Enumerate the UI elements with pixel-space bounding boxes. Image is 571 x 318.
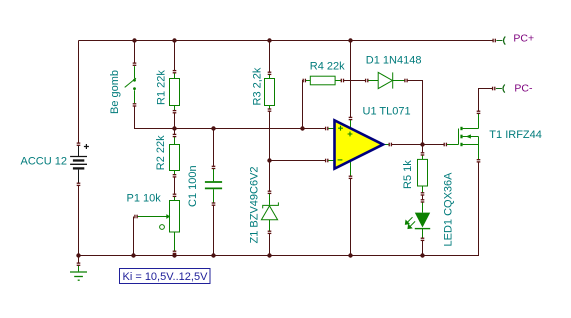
wire switch to noninverting row (135, 106, 326, 128)
node +input row / R4 branch (300, 126, 304, 130)
output voltage note box (120, 269, 211, 284)
wire LED1 bottom stub (422, 241, 424, 256)
svg-text:R4 22k: R4 22k (310, 61, 345, 73)
MOSFET T1 drain link (463, 128, 479, 130)
svg-text:Z1 BZV49C6V2: Z1 BZV49C6V2 (248, 166, 260, 243)
op-amp U1 input and output pin stubs (329, 129, 389, 161)
pin tick T1 drain (477, 111, 481, 115)
pin tick R2 bottom (173, 174, 177, 178)
pin tick T1 source (477, 159, 481, 163)
wire T1 drain to PC- (479, 89, 493, 111)
node +input row / C1 (211, 126, 215, 130)
wire R4 left branch (302, 81, 305, 129)
wire ground stub (78, 256, 80, 263)
wire R3 top stub (269, 41, 271, 72)
node bottom rail / LED1 (420, 253, 424, 257)
MOSFET T1 body arrow (466, 134, 471, 138)
node bottom rail / battery (76, 253, 80, 257)
switch Be gomb body (125, 66, 136, 103)
wire R1 bottom stub (174, 113, 176, 128)
svg-text:C1 100n: C1 100n (187, 165, 199, 207)
svg-text:Be gomb: Be gomb (109, 70, 121, 114)
wire battery bottom segment (78, 185, 80, 255)
switch contact lower (133, 87, 136, 90)
wire R5 top stub (422, 145, 424, 153)
pin tick Z1 top (268, 191, 272, 195)
pin tick R1 top (173, 70, 177, 74)
pin tick P1 bottom (173, 251, 177, 255)
resistor R4 (306, 76, 341, 85)
op-amp U1 noninverting input + mark (338, 126, 343, 131)
diode D1 anode pin (368, 80, 378, 82)
svg-text:R2 22k: R2 22k (155, 135, 167, 170)
wire P1 bottom stub (174, 254, 176, 256)
pin tick R4 left (303, 79, 307, 83)
resistor R5 (418, 155, 428, 193)
svg-text:Ki = 10,5V..12,5V: Ki = 10,5V..12,5V (123, 271, 209, 283)
pin tick T1 gate (444, 143, 448, 147)
svg-text:R1 22k: R1 22k (156, 70, 168, 105)
pin tick ground (77, 262, 81, 265)
wire Z1 bottom stub (269, 234, 271, 256)
pin tick D1 anode (365, 79, 368, 83)
pin tick PC- (492, 87, 495, 91)
wire R1 top stub (174, 41, 176, 71)
node bottom rail / U1 V- (348, 253, 352, 257)
MOSFET T1 drain pin (478, 113, 480, 128)
pin tick U1 V+ (349, 117, 353, 121)
op-amp U1 power pin stubs (350, 120, 352, 176)
zener diode Z1 bottom pin (269, 220, 271, 232)
pin tick PC+ (492, 39, 495, 43)
resistor R3 (265, 75, 275, 109)
wire P1 wiper net (133, 217, 135, 256)
MOSFET T1 source link (463, 144, 479, 146)
wire C1 top stub (213, 129, 215, 166)
wire R3 to Z1 link (269, 112, 271, 191)
resistor R1 (170, 73, 180, 110)
wire D1 to output node (408, 81, 423, 145)
node -input row / R3 Z1 (267, 158, 271, 162)
LED LED1 cathode pin (422, 229, 424, 239)
pin tick D1 cathode (404, 79, 408, 83)
pin tick switch top (133, 62, 137, 66)
LED LED1 anode pin (422, 202, 424, 212)
svg-text:D1 1N4148: D1 1N4148 (366, 55, 422, 67)
op-amp U1 V+ mark (348, 132, 353, 137)
node bottom rail / C1 (211, 253, 215, 257)
pin tick R3 top (268, 72, 272, 76)
pin tick C1 top (212, 166, 216, 170)
pin tick battery - (77, 183, 81, 187)
wire R5 to LED1 link (422, 195, 424, 199)
pin tick LED1 anode (421, 199, 425, 203)
wire U1 V+ stub (350, 41, 352, 118)
wire switch top stub (134, 41, 136, 63)
wire U1 V- stub (350, 179, 352, 256)
capacitor C1 (205, 169, 222, 203)
wire C1 bottom stub (213, 206, 215, 256)
pin tick switch bottom (133, 103, 137, 107)
pin tick C1 bottom (212, 202, 216, 206)
pin tick R2 top (173, 134, 177, 138)
node top rail / R3 (267, 38, 271, 42)
MOSFET T1 source pin (478, 137, 480, 160)
pin tick R4 right (341, 79, 345, 83)
potentiometer P1 wiper arrow (166, 214, 170, 219)
svg-text:U1 TL071: U1 TL071 (363, 105, 411, 117)
pin tick P1 wiper (134, 215, 138, 219)
MOSFET T1 body link (463, 136, 479, 138)
wire bottom ground rail (79, 162, 479, 256)
switch contact upper (133, 79, 136, 82)
pin tick Z1 bottom (268, 231, 272, 235)
pin tick U1 V- (349, 176, 353, 180)
pin tick R5 bottom (421, 192, 425, 196)
node top rail / switch (132, 38, 136, 42)
diode D1 triangle (378, 72, 392, 88)
pin tick U1 inverting input (325, 159, 328, 163)
LED LED1 triangle (415, 213, 430, 228)
pin tick battery + (77, 142, 81, 146)
zener diode Z1 body (263, 194, 279, 209)
potentiometer P1 body (138, 197, 180, 252)
node +input row / R1 R2 (172, 126, 176, 130)
diode D1 cathode pin (393, 80, 405, 82)
wire R4 to D1 link (344, 80, 366, 82)
node top rail / U1 V+ (348, 38, 352, 42)
node bottom rail / wiper (131, 253, 135, 257)
node bottom rail / P1 (172, 253, 176, 257)
node output node (420, 142, 424, 146)
battery B1 ACCU 12 (70, 144, 89, 183)
wire top power rail (79, 40, 494, 42)
pin tick LED1 cathode (421, 238, 425, 242)
node bottom rail / Z1 (267, 253, 271, 257)
wire output to gate (392, 144, 444, 146)
wire R2 top stub (174, 129, 176, 135)
svg-text:T1 IRFZ44: T1 IRFZ44 (489, 129, 542, 141)
diode D1 cathode bar (392, 72, 394, 88)
svg-text:P1 10k: P1 10k (127, 192, 162, 204)
potentiometer P1 circle mark (160, 225, 165, 230)
svg-text:ACCU 12: ACCU 12 (21, 156, 67, 168)
node top rail / R1 (172, 38, 176, 42)
LED LED1 emission arrows (405, 217, 415, 228)
zener diode Z1 anode triangle (261, 206, 277, 220)
pin tick R5 top (421, 152, 425, 156)
svg-text:LED1 CQX36A: LED1 CQX36A (443, 172, 455, 247)
ground symbol (70, 266, 87, 281)
wire inverting input row (270, 160, 326, 162)
svg-text:PC+: PC+ (513, 32, 534, 44)
resistor R2 (170, 137, 180, 175)
MOSFET T1 channel segments (460, 127, 462, 146)
op-amp U1 TL071 triangle (335, 120, 384, 168)
wire R2 to P1 link (174, 177, 176, 194)
wire battery top segment (78, 41, 80, 144)
connector PC+ (496, 37, 505, 45)
pin tick U1 output (389, 143, 393, 147)
svg-text:PC-: PC- (514, 83, 533, 95)
svg-text:R5 1k: R5 1k (402, 160, 414, 189)
op-amp U1 inverting input - mark (338, 159, 343, 161)
MOSFET T1 gate pin (447, 144, 459, 146)
connector PC- (496, 85, 505, 93)
pin tick R1 bottom (173, 110, 177, 114)
pin tick U1 noninverting input (325, 127, 328, 131)
pin tick P1 top (173, 194, 177, 198)
MOSFET T1 gate bar (458, 129, 460, 145)
LED LED1 cathode bar (415, 228, 430, 230)
svg-text:R3 2,2k: R3 2,2k (251, 67, 263, 105)
pin tick R3 bottom (268, 108, 272, 112)
